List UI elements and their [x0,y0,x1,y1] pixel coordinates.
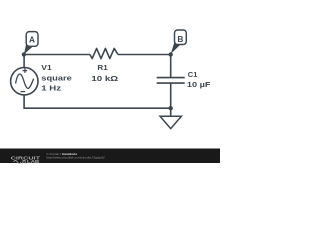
node dot B [169,52,173,56]
svg-text:V1: V1 [41,63,52,71]
svg-text:A: A [29,35,35,45]
svg-text:LAB: LAB [27,160,40,165]
CircuitLab logo: sine squiggle [14,160,22,163]
node A pointer wedge [24,42,33,54]
node B flag box [175,30,187,45]
wire left vertical upper [23,55,25,68]
svg-text:10 µF: 10 µF [187,80,211,89]
svg-text:B: B [177,34,183,44]
svg-text:10 kΩ: 10 kΩ [91,74,118,83]
V1 minus sign [21,91,26,93]
svg-text:square: square [41,73,72,82]
V1 sine wave [16,74,34,88]
svg-text:R1: R1 [97,63,108,72]
wire bottom horizontal [24,95,171,109]
ground symbol [160,116,181,128]
wire top-right horizontal [118,54,171,56]
resistor R1 [90,48,118,58]
capacitor C1 [157,78,185,84]
ground stub wire [170,108,172,116]
CircuitLab logo: square pulse [22,160,26,163]
junction dot bottom [169,106,173,110]
voltage source V1 [11,68,38,95]
wire capacitor to bottom [170,83,172,108]
wire right vertical to capacitor [170,55,172,78]
wire top-left horizontal [24,54,90,56]
node A flag box [26,32,38,47]
footer bar [0,149,220,164]
V1 plus sign [23,68,28,73]
svg-text:C1: C1 [188,70,198,79]
node dot A [22,52,26,56]
node B pointer wedge [171,40,181,54]
svg-text:1 Hz: 1 Hz [41,83,61,92]
svg-text:http://www.circuitlab.com/circ: http://www.circuitlab.com/circuit/c72gdq… [46,156,104,160]
